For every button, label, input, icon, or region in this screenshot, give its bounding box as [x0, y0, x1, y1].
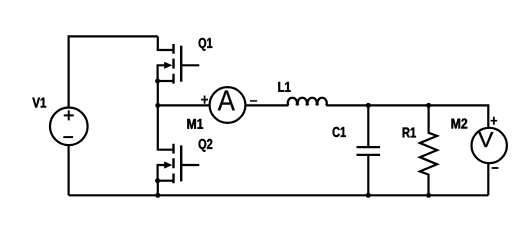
Q1 gate bar: [180, 46, 182, 82]
Q2 source lead: [158, 180, 174, 182]
M1 letter A: [218, 90, 235, 110]
M2 plus mark: [491, 117, 498, 125]
wire: V1 bottom lead: [67, 146, 69, 195]
label C1: [333, 127, 346, 137]
wire: ammeter to inductor: [246, 104, 288, 106]
label M1: [187, 119, 203, 129]
Q2 gate lead: [181, 164, 199, 166]
label M2: [452, 119, 468, 129]
V1 minus mark: [63, 136, 73, 138]
Q1 channel bar segments: [172, 44, 174, 84]
label R1: [403, 128, 416, 138]
label Q2: [199, 139, 213, 152]
Q1 body arrow: [164, 62, 172, 69]
M2 minus mark: [492, 167, 499, 169]
Q2 drain lead: [158, 105, 173, 149]
Q2 body arrow: [164, 161, 172, 168]
M1 minus mark: [250, 100, 257, 102]
ammeter M1: [210, 87, 246, 123]
C1 top lead: [367, 105, 369, 146]
Q1 gate lead: [181, 64, 199, 66]
Q2 source junction dot: [155, 178, 160, 183]
label Q1: [199, 38, 213, 51]
capacitor C1: [357, 105, 381, 195]
C1 top plate: [357, 146, 381, 148]
wire: Q1 source to mid node: [157, 81, 159, 105]
wire: inductor to top-right corner down to voltmeter: [326, 105, 488, 127]
wire: bottom rail: [69, 194, 489, 196]
wire: Q2 source to bottom rail: [157, 181, 159, 196]
Q2 gate bar: [180, 145, 182, 181]
V1 plus mark: [64, 110, 74, 120]
node: R1 top junction: [426, 103, 431, 108]
wire: mid node to ammeter: [158, 104, 209, 106]
wire: voltmeter to bottom rail: [487, 164, 489, 196]
node: mid rail junction: [155, 103, 160, 108]
wire: V1 top lead, top rail: [69, 36, 158, 106]
M1 plus mark: [201, 96, 208, 104]
Q1 source lead: [158, 80, 174, 82]
Q1 body wire: [158, 65, 165, 81]
label V1: [32, 98, 46, 108]
voltmeter M2: [472, 128, 507, 163]
node: C1 top junction: [366, 103, 371, 108]
voltage source V1: [50, 108, 88, 146]
resistor R1: [420, 105, 437, 195]
C1 bottom plate: [357, 154, 381, 156]
node: C1 bottom junction: [366, 193, 371, 198]
Q2 channel bar segments: [172, 144, 174, 184]
transistor Q1: [158, 36, 200, 105]
node: bottom rail junction at Q2 source: [155, 193, 160, 198]
Q1 source junction dot: [155, 79, 160, 84]
C1 bottom lead: [367, 156, 369, 195]
node: R1 bottom junction: [426, 193, 431, 198]
label L1: [278, 82, 290, 92]
Q2 body wire: [158, 165, 165, 181]
inductor L1: [288, 98, 327, 106]
M2 letter V: [478, 132, 493, 147]
transistor Q2: [158, 105, 200, 195]
Q1 drain lead: [158, 36, 173, 50]
